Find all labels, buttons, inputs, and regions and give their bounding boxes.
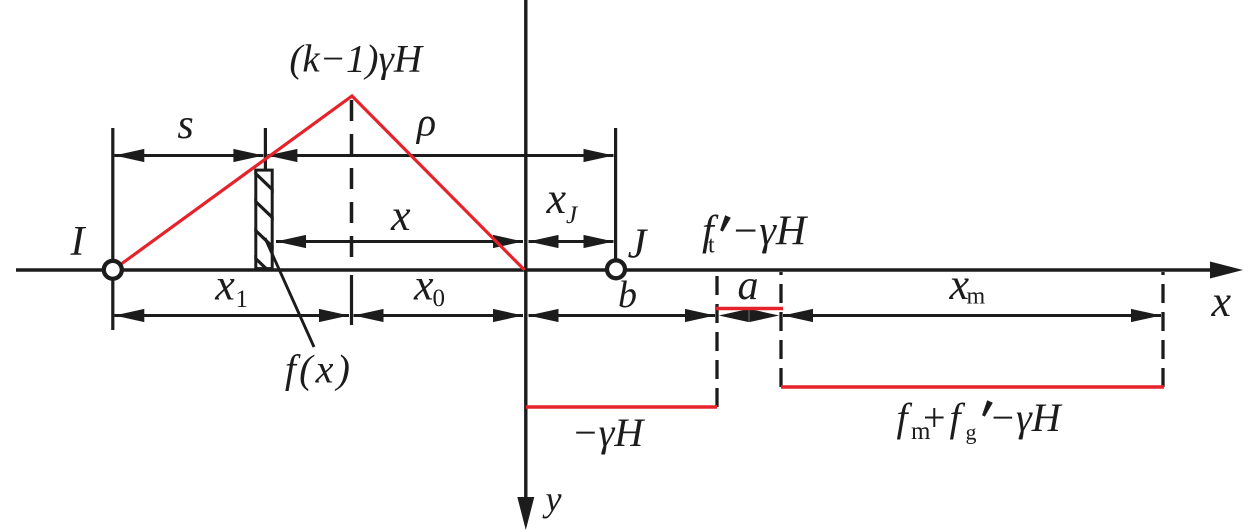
svg-text:(k−1)γH: (k−1)γH bbox=[289, 38, 423, 81]
svg-text:J: J bbox=[566, 202, 579, 229]
svg-text:0: 0 bbox=[433, 285, 446, 312]
extension tick below apex bbox=[350, 275, 353, 325]
extension line through node I bbox=[111, 128, 114, 330]
svg-text:ρ: ρ bbox=[415, 100, 436, 145]
extension line at strip (s/rho boundary) bbox=[264, 128, 267, 170]
y axis bbox=[517, 0, 534, 530]
svg-text:−γH: −γH bbox=[989, 395, 1063, 440]
dashed line at x=781 bbox=[779, 272, 782, 387]
red segment -gammaH bbox=[526, 405, 717, 408]
svg-text:m: m bbox=[967, 284, 986, 310]
label x1 bbox=[214, 261, 248, 314]
dashed apex drop line bbox=[350, 100, 354, 268]
svg-text:s: s bbox=[177, 102, 193, 148]
svg-text:−γH: −γH bbox=[731, 209, 809, 255]
red segment fm+fg'-gammaH bbox=[781, 385, 1164, 388]
node I circle bbox=[104, 261, 122, 279]
dashed line at x=1163 bbox=[1161, 272, 1164, 387]
dimension rho bbox=[267, 149, 613, 162]
leader line to f(x) bbox=[265, 238, 314, 347]
dashed line at x=717 bbox=[715, 272, 718, 407]
dimension x bbox=[276, 235, 523, 248]
dimension b bbox=[529, 309, 716, 322]
svg-text:t: t bbox=[708, 233, 715, 259]
label x0 bbox=[413, 261, 445, 313]
svg-text:b: b bbox=[618, 274, 637, 316]
svg-text:f: f bbox=[950, 395, 966, 440]
red segment ft'-gammaH over a bbox=[715, 307, 783, 310]
hatched strip f(x) bbox=[253, 170, 277, 279]
svg-text:x: x bbox=[413, 261, 434, 310]
dimension x0 bbox=[354, 309, 524, 322]
svg-text:x: x bbox=[1211, 277, 1232, 326]
label ft'-gammaH bbox=[702, 209, 809, 259]
x axis bbox=[16, 262, 1243, 279]
dimension s bbox=[114, 149, 263, 162]
dimension xm bbox=[783, 309, 1161, 322]
dimension a bbox=[719, 309, 779, 322]
label xm bbox=[949, 260, 986, 310]
dimension xJ bbox=[529, 235, 614, 248]
svg-text:−γH: −γH bbox=[572, 410, 646, 455]
svg-text:x: x bbox=[214, 261, 235, 310]
node J circle bbox=[607, 260, 625, 278]
label fm+fg'-gammaH bbox=[897, 395, 1063, 445]
svg-text:g: g bbox=[966, 420, 977, 445]
svg-text:x: x bbox=[390, 191, 411, 240]
label xJ bbox=[546, 174, 580, 229]
dimension x1 bbox=[114, 309, 349, 322]
svg-text:+: + bbox=[923, 395, 946, 440]
svg-text:f(x): f(x) bbox=[285, 347, 353, 392]
svg-text:1: 1 bbox=[236, 286, 249, 313]
svg-text:a: a bbox=[738, 263, 759, 309]
svg-text:y: y bbox=[543, 479, 562, 519]
extension line at node J bbox=[614, 128, 617, 262]
svg-text:I: I bbox=[70, 219, 87, 265]
red triangular load (k-1)gammaH bbox=[113, 96, 525, 270]
svg-text:x: x bbox=[546, 174, 567, 223]
svg-text:J: J bbox=[628, 222, 649, 268]
